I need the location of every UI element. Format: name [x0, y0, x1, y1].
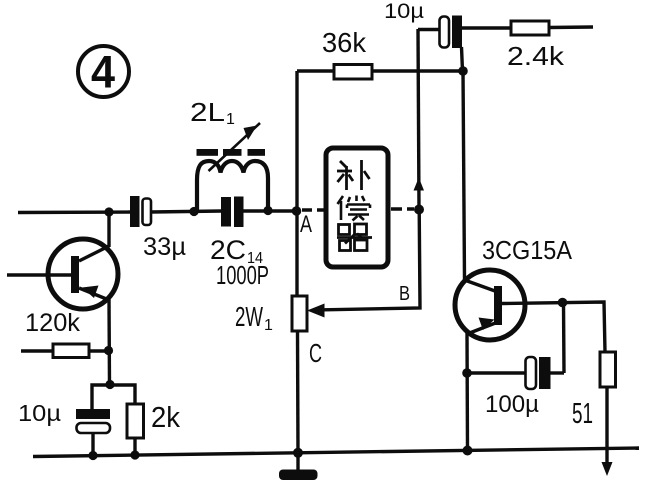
svg-text:2k: 2k: [151, 402, 180, 434]
node junction left of tank: [189, 207, 198, 216]
arrow up on output branch: [414, 178, 425, 191]
node junction emitter/100µ: [462, 368, 472, 378]
ground: [279, 453, 318, 480]
svg-text:1: 1: [226, 111, 235, 128]
resistor 120k: [21, 344, 109, 358]
wire to 2k: [110, 385, 135, 405]
node junction base/100µ: [558, 298, 568, 308]
node A: [292, 206, 302, 216]
dashed wire node A to compensator: [302, 208, 326, 211]
svg-text:120k: 120k: [25, 309, 80, 337]
transistor Q1: [48, 239, 118, 309]
svg-text:3CG15A: 3CG15A: [482, 235, 573, 265]
resistor 2.4k: [511, 21, 593, 35]
svg-text:10µ: 10µ: [18, 400, 61, 426]
node junction right of tank: [263, 206, 272, 215]
wire output branch vertical: [418, 29, 419, 209]
wire collector riser: [462, 47, 465, 280]
svg-text:2W: 2W: [235, 301, 263, 332]
label 2L1: [190, 97, 235, 128]
resistor 51: [600, 352, 616, 476]
node junction 2k/rail: [130, 450, 139, 459]
wire Q1 base: [7, 273, 71, 276]
svg-text:A: A: [300, 211, 312, 238]
wire Q2 base: [502, 302, 605, 352]
svg-text:10µ: 10µ: [384, 0, 424, 23]
bottom rail wire: [33, 448, 639, 457]
node junction 36k/collector: [458, 66, 468, 76]
node junction Q1 collector tap: [104, 207, 113, 216]
svg-text:51: 51: [572, 398, 593, 430]
wire input top-left: [18, 210, 131, 214]
wire to 10µ bypass: [92, 385, 110, 410]
capacitor 100µ: [467, 303, 564, 389]
wire Q1 emitter: [107, 299, 111, 385]
svg-text:36k: 36k: [322, 27, 367, 58]
node B: [414, 205, 424, 215]
label 2W1: [235, 301, 273, 334]
character 补: [337, 160, 370, 190]
wire 33µ to tank: [151, 211, 222, 212]
label 2C14: [210, 235, 263, 267]
svg-text:1000P: 1000P: [216, 260, 269, 290]
svg-text:1: 1: [264, 317, 273, 334]
node junction pot/rail: [293, 448, 303, 458]
wire Q1 collector: [107, 212, 110, 247]
resistor 2k: [127, 404, 144, 456]
svg-text:C: C: [309, 338, 322, 368]
inductor 2L1 adjustable core (dashed): [197, 149, 266, 156]
node junction emitter split: [105, 380, 114, 389]
figure number 4: [78, 46, 129, 98]
svg-text:33µ: 33µ: [143, 233, 186, 261]
wire main vertical (36k tap to node A to pot): [295, 71, 298, 296]
node junction 10µ/rail: [88, 451, 97, 460]
capacitor 10µ (emitter bypass): [76, 409, 110, 433]
wire Q2 emitter: [465, 333, 469, 451]
capacitor 2C14: [221, 197, 244, 228]
capacitor 10µ (output coupling): [418, 16, 511, 49]
compensator box: [326, 148, 388, 267]
inductor 2L1 adjust arrow: [209, 123, 261, 171]
capacitor C 33µ: [130, 196, 151, 227]
dashed wire compensator to node B: [391, 207, 414, 210]
node junction 120k/emitter: [104, 346, 113, 355]
svg-text:4: 4: [91, 47, 115, 98]
svg-text:100µ: 100µ: [485, 391, 539, 418]
wiper arrowhead: [307, 304, 325, 318]
resistor 36k: [297, 65, 463, 80]
svg-text:B: B: [399, 283, 410, 305]
potentiometer 2W1: [292, 296, 307, 331]
svg-text:2.4k: 2.4k: [507, 41, 565, 71]
wire pot to ground: [296, 331, 300, 453]
character 器: [337, 224, 372, 251]
wire 10µ to rail: [91, 433, 94, 456]
node junction emitter/rail: [463, 446, 473, 456]
inductor 2L1 coil: [197, 161, 268, 211]
wire tank to node A: [243, 209, 297, 212]
svg-text:2L: 2L: [190, 97, 225, 127]
wire node B to wiper: [324, 209, 420, 310]
character 偿: [338, 196, 371, 221]
transistor Q2 3CG15A: [455, 270, 525, 340]
